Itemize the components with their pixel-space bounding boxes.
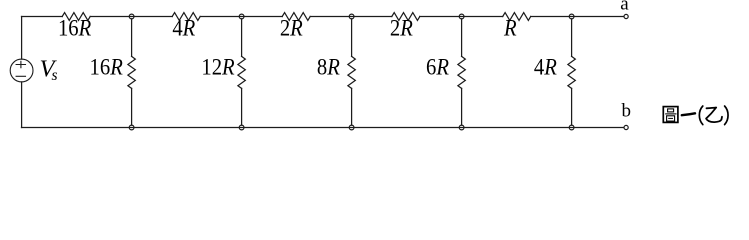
label 8R (shunt) [317, 53, 340, 80]
wire shunt 5 top [571, 19, 573, 57]
svg-text:R: R [503, 14, 517, 41]
node top 3 [349, 14, 354, 19]
label 4R (shunt) [534, 53, 557, 80]
resistor 4R (series, top) [172, 13, 200, 21]
label 2R (series, first) [280, 14, 303, 41]
wire shunt 4 bottom [461, 88, 463, 125]
resistor 12R (shunt) [238, 56, 245, 88]
caption glyph 乙 [706, 108, 722, 123]
wire top rail segment 5 [420, 16, 503, 18]
node top 1 [129, 14, 134, 19]
wire top rail segment 4 [310, 16, 392, 18]
wire shunt 1 top [131, 19, 133, 57]
node top 4 [459, 14, 464, 19]
label 12R (shunt) [201, 53, 235, 80]
svg-text:2R: 2R [280, 14, 303, 41]
wire bottom rail [22, 127, 624, 129]
svg-text:16R: 16R [58, 14, 92, 41]
voltage source Vs circle [10, 59, 33, 82]
wire top rail segment 2 [90, 16, 172, 18]
label 4R (series) [172, 14, 195, 41]
wire shunt 3 top [351, 19, 353, 57]
wire shunt 5 bottom [571, 88, 573, 125]
wire shunt 4 top [461, 19, 463, 57]
resistor 2R (series, top, second) [392, 13, 420, 21]
svg-text:4R: 4R [172, 14, 195, 41]
resistor 16R (series, top) [62, 13, 90, 21]
svg-text:4R: 4R [534, 53, 557, 80]
svg-text:a: a [620, 0, 629, 14]
node bottom 4 [459, 125, 464, 130]
wire top rail to terminal a [531, 16, 624, 18]
node top 5 [569, 14, 574, 19]
wire top rail segment 3 [200, 16, 282, 18]
node bottom 5 [569, 125, 574, 130]
caption close paren ) [725, 106, 728, 125]
label R (series) [503, 14, 517, 41]
wire shunt 2 bottom [241, 88, 243, 125]
node bottom 2 [239, 125, 244, 130]
svg-text:b: b [621, 100, 631, 121]
plus sign inside source [16, 61, 25, 67]
svg-text:6R: 6R [426, 53, 449, 80]
node top 2 [239, 14, 244, 19]
wire left branch bottom [21, 82, 23, 128]
caption glyph 一 [682, 113, 695, 115]
label 6R (shunt) [426, 53, 449, 80]
svg-text:8R: 8R [317, 53, 340, 80]
node bottom 1 [129, 125, 134, 130]
svg-text:s: s [52, 67, 58, 84]
wire shunt 3 bottom [351, 88, 353, 125]
terminal a circle [624, 14, 628, 18]
terminal b circle [624, 125, 628, 129]
label 16R (series) [58, 14, 92, 41]
node bottom 3 [349, 125, 354, 130]
svg-text:12R: 12R [201, 53, 235, 80]
wire top rail segment 1 [22, 16, 63, 18]
resistor 4R (shunt) [568, 56, 575, 88]
resistor R (series, top) [503, 13, 531, 21]
label 2R (series, second) [390, 14, 413, 41]
svg-text:16R: 16R [90, 53, 124, 80]
svg-text:2R: 2R [390, 14, 413, 41]
resistor 16R (shunt) [128, 56, 135, 88]
caption glyph 圖 [663, 107, 678, 123]
wire left branch top [21, 17, 23, 60]
resistor 6R (shunt) [458, 56, 465, 88]
minus sign inside source [16, 75, 25, 77]
caption open paren ( [699, 106, 702, 125]
wire shunt 2 top [241, 19, 243, 57]
label 16R (shunt) [90, 53, 124, 80]
resistor 8R (shunt) [348, 56, 355, 88]
wire shunt 1 bottom [131, 88, 133, 125]
resistor 2R (series, top, first) [282, 13, 310, 21]
